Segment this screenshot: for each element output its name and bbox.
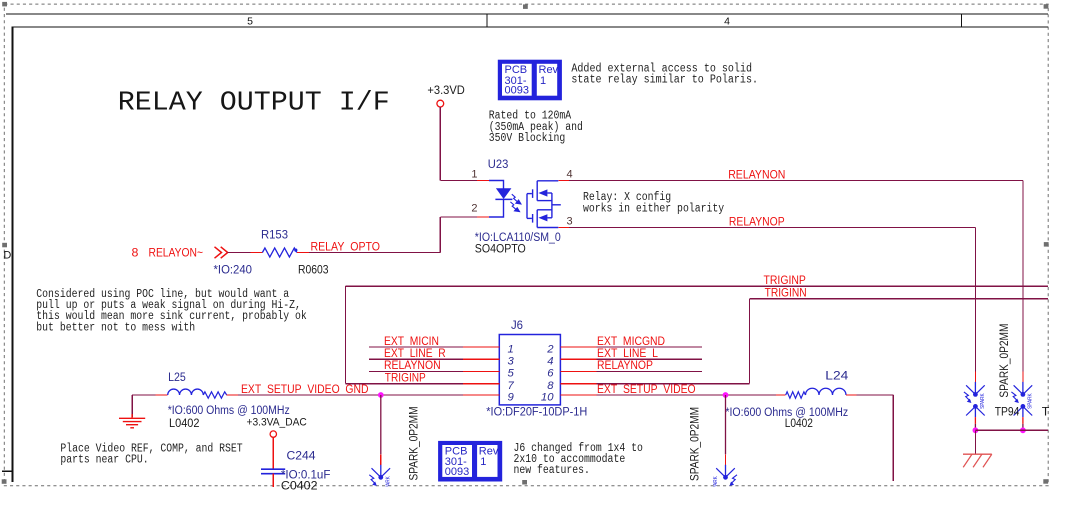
svg-text:10: 10	[541, 391, 554, 403]
wire EXT_LINE_L	[596, 358, 702, 360]
junction spark E1 / gnd wire	[973, 427, 979, 433]
connector J6 body	[499, 335, 560, 405]
svg-text:parts near CPU.: parts near CPU.	[60, 454, 148, 467]
wire TRIGINP to J6	[346, 383, 464, 385]
svg-text:R153: R153	[261, 228, 288, 242]
svg-text:R0603: R0603	[298, 263, 329, 277]
svg-text:TRIGINP: TRIGINP	[385, 370, 426, 384]
J6 pin 4 lead	[560, 358, 596, 360]
J6 pin 6 lead	[560, 370, 596, 372]
J6 pin 8 lead	[560, 383, 596, 385]
svg-text:8: 8	[547, 380, 554, 392]
wire TRIGINP vertical to J6 pin7	[345, 286, 347, 384]
svg-text:2: 2	[471, 203, 477, 215]
capacitor C244	[261, 468, 285, 470]
J6 pin 7 lead	[463, 383, 499, 385]
wire TRIGINN vertical to J6 pin8	[748, 299, 750, 384]
J6 pin 1 lead	[463, 346, 499, 348]
L24 pin 2 stub	[846, 394, 857, 396]
left margin row tick	[2, 470, 13, 472]
wire spark row to page edge	[975, 429, 1048, 431]
J6 pin 3 lead	[463, 358, 499, 360]
svg-text:8: 8	[132, 246, 139, 260]
svg-text:3: 3	[567, 216, 573, 228]
svg-text:1: 1	[480, 456, 486, 468]
wire EXT_SETUP_VIDEO_GND to J6 pin9	[238, 394, 463, 396]
wire RELAYON~ to R153	[228, 252, 251, 254]
svg-text:SPARK_0P2MM: SPARK_0P2MM	[997, 324, 1011, 398]
wire down from L24	[892, 395, 894, 481]
J6 pin 9 lead	[463, 394, 499, 396]
U23 MOSFET pair	[527, 181, 561, 228]
spark gap E1 (RELAYNOP)	[964, 371, 986, 430]
svg-text:6: 6	[547, 368, 554, 380]
svg-text:SPARK: SPARK	[980, 393, 986, 409]
J6 pin 5 lead	[463, 370, 499, 372]
U23 pin 3 stub	[558, 227, 569, 229]
junction EXT_SETUP_VIDEO_GND / spark	[378, 392, 384, 398]
svg-text:L0402: L0402	[785, 416, 813, 430]
svg-text:RELAYNOP: RELAYNOP	[729, 214, 785, 228]
wire RELAYNOP vertical	[974, 228, 976, 372]
wire RELAY_OPTO	[309, 252, 440, 254]
spark gap E3	[369, 454, 391, 498]
svg-text:RELAY OUTPUT I/F: RELAY OUTPUT I/F	[118, 87, 390, 117]
L25 pin 2 stub	[227, 394, 238, 396]
svg-text:U23: U23	[488, 157, 509, 171]
chassis ground symbol	[963, 454, 992, 467]
wire TRIGINP horizontal	[346, 285, 1049, 287]
wire EXT_LINE_R	[369, 358, 463, 360]
spark gap E2 (RELAYNON)	[1011, 371, 1033, 430]
wire to U23 pin2	[440, 216, 477, 218]
inductor L24 coils	[806, 388, 847, 395]
U23 LED triangle	[496, 188, 512, 199]
wire RELAYNOP horizontal	[569, 227, 975, 229]
svg-text:but better not to mess with: but better not to mess with	[36, 321, 195, 334]
J6 pin 10 lead	[560, 394, 596, 396]
svg-text:*IO:240: *IO:240	[214, 263, 253, 277]
boundary corner/midpoint markers	[2, 2, 7, 7]
L24 pin 1 stub	[776, 394, 786, 396]
svg-text:L0402: L0402	[169, 416, 200, 430]
ground symbol (signal gnd)	[119, 414, 145, 428]
wire below C244	[272, 474, 274, 487]
svg-text:L24: L24	[825, 369, 848, 383]
junction spark E2 / gnd wire	[1020, 427, 1026, 433]
top ruler band	[6, 13, 1048, 15]
R153 pin dot	[294, 249, 297, 252]
input port chevron	[215, 247, 222, 258]
svg-text:EXT_SETUP_VIDEO_GND: EXT_SETUP_VIDEO_GND	[241, 382, 369, 396]
R153 pin 1 stub	[250, 252, 262, 254]
svg-text:0093: 0093	[445, 466, 469, 478]
power symbol +3.3VA_DAC circle	[270, 431, 276, 437]
svg-text:5: 5	[247, 15, 253, 27]
svg-text:new features.: new features.	[514, 464, 590, 477]
svg-text:RELAYNOP: RELAYNOP	[597, 358, 653, 372]
wire RELAY_OPTO vertical	[439, 217, 441, 253]
wire TRIGINN horizontal	[749, 298, 1048, 300]
svg-text:TRIGINN: TRIGINN	[765, 286, 807, 300]
wire EXT_SETUP_VIDEO	[596, 394, 776, 396]
U23 pin 1 stub	[477, 180, 489, 182]
wire RELAYNON vertical	[1022, 181, 1024, 372]
svg-text:1: 1	[471, 169, 477, 181]
wire EXT_MICGND	[596, 346, 702, 348]
svg-text:2: 2	[546, 343, 554, 355]
svg-text:TP94: TP94	[995, 404, 1020, 418]
R153 pin 2 stub	[297, 252, 309, 254]
svg-text:RELAYON~: RELAYON~	[149, 246, 204, 260]
wire L24 to right	[857, 394, 894, 396]
svg-text:T: T	[1042, 404, 1050, 418]
inner frame left edge	[12, 27, 14, 483]
U23 LED cathode bar	[495, 198, 512, 200]
svg-text:9: 9	[508, 391, 515, 403]
svg-text:*IO:600 Ohms @ 100MHz: *IO:600 Ohms @ 100MHz	[168, 403, 290, 417]
L25 pin 1 stub	[156, 394, 168, 396]
wire RELAYNOP to J6	[596, 370, 702, 372]
svg-text:3: 3	[508, 356, 515, 368]
svg-text:RELAY_OPTO: RELAY_OPTO	[311, 239, 381, 253]
wire TRIGINN to J6 pin8	[596, 383, 749, 385]
wire +3.3VA_DAC to C244	[272, 437, 274, 469]
wire RELAYNON to J6	[369, 370, 463, 372]
svg-text:*IO:DF20F-10DP-1H: *IO:DF20F-10DP-1H	[486, 405, 587, 419]
U23 light arrows	[510, 194, 521, 211]
svg-text:4: 4	[567, 169, 573, 181]
U23 MOSFET arrows	[538, 189, 547, 196]
spark gap E4	[713, 454, 737, 498]
wire EXT_MICIN	[369, 346, 463, 348]
U23 pin 2 stub	[477, 216, 489, 218]
U23 LED anode path	[489, 181, 504, 189]
svg-text:4: 4	[724, 15, 730, 27]
resistor R153	[262, 248, 296, 257]
svg-text:SPARK_0P2MM: SPARK_0P2MM	[688, 407, 702, 481]
PCB rev box top	[498, 60, 562, 101]
svg-text:4: 4	[547, 356, 553, 368]
power symbol +3.3VD circle	[437, 100, 444, 107]
svg-text:SPARK: SPARK	[1028, 393, 1034, 409]
wire +3.3VD to U23 pin1	[439, 107, 441, 180]
svg-text:+3.3VA_DAC: +3.3VA_DAC	[247, 417, 307, 429]
inductor L25 loss zigzag	[203, 392, 226, 398]
svg-text:+3.3VD: +3.3VD	[427, 83, 464, 97]
wire to ground	[131, 395, 133, 417]
svg-text:350V Blocking: 350V Blocking	[489, 132, 565, 145]
svg-text:J6: J6	[511, 318, 523, 332]
wire gnd corner to L25	[132, 394, 155, 396]
wire spark E4 drop	[725, 395, 727, 454]
wire to chassis ground	[974, 430, 976, 454]
svg-text:EXT_SETUP_VIDEO: EXT_SETUP_VIDEO	[597, 382, 696, 396]
svg-text:7: 7	[508, 380, 515, 392]
svg-text:C0402: C0402	[281, 478, 318, 492]
svg-text:0093: 0093	[505, 85, 529, 97]
svg-text:5: 5	[508, 368, 515, 380]
wire spark E3 drop	[380, 395, 382, 454]
U23 LED cathode path	[489, 199, 504, 217]
wire RELAYNON horizontal	[569, 180, 1023, 182]
svg-text:SO4OPTO: SO4OPTO	[475, 242, 526, 256]
svg-text:RELAYNON: RELAYNON	[728, 167, 785, 181]
svg-text:1: 1	[540, 75, 546, 87]
svg-text:C244: C244	[287, 449, 316, 463]
inductor L25 coils	[168, 389, 204, 395]
J6 pin 2 lead	[560, 346, 596, 348]
svg-text:SPARK_0P2MM: SPARK_0P2MM	[406, 407, 420, 481]
svg-text:state relay similar to Polaris: state relay similar to Polaris.	[571, 74, 758, 87]
svg-text:works in either polarity: works in either polarity	[583, 202, 724, 215]
PCB rev box bottom	[438, 441, 502, 482]
inductor L24 loss zigzag	[786, 392, 806, 398]
svg-text:L25: L25	[168, 370, 186, 384]
U23 pin 4 stub	[558, 180, 569, 182]
svg-text:D: D	[3, 250, 11, 262]
junction EXT_SETUP_VIDEO / spark	[723, 392, 729, 398]
svg-text:1: 1	[508, 343, 514, 355]
